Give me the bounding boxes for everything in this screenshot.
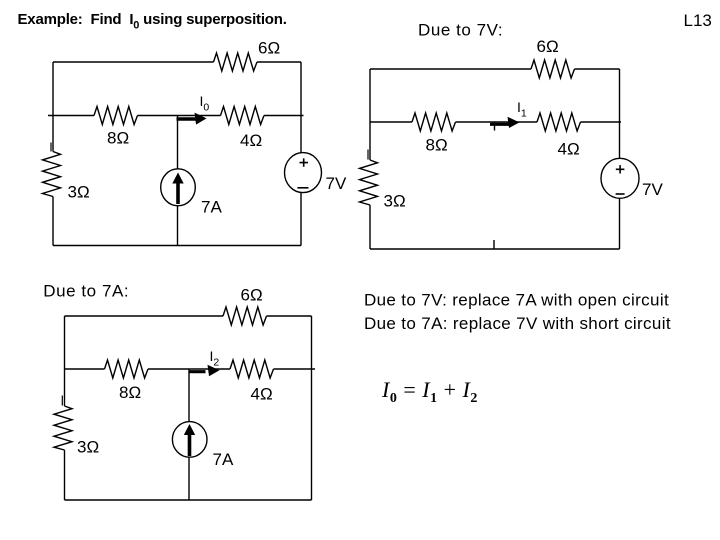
svg-text:8Ω: 8Ω: [107, 129, 129, 148]
svg-text:4Ω: 4Ω: [558, 140, 580, 159]
svg-text:3Ω: 3Ω: [77, 438, 99, 457]
wire: circuit 2 middle wire right segment: [581, 121, 622, 123]
svg-text:7V: 7V: [642, 180, 663, 199]
svg-text:8Ω: 8Ω: [426, 136, 448, 155]
resistor 6Ω (circuit 1): [214, 39, 281, 72]
svg-text:3Ω: 3Ω: [384, 192, 406, 211]
wire: circuit 2 bottom wire: [370, 248, 620, 250]
resistor 6Ω (circuit 2): [531, 37, 574, 78]
svg-text:I1: I1: [517, 99, 527, 120]
resistor 4Ω (circuit 1): [221, 107, 265, 151]
svg-text:Due to 7A: replace 7V with sho: Due to 7A: replace 7V with short circuit: [364, 314, 671, 333]
wire: circuit 3 top wire left segment: [65, 315, 224, 317]
open-circuit stub (bottom) where 7A source was removed: [493, 240, 495, 249]
wire: circuit 3 left rail upper segment: [64, 316, 66, 406]
svg-text:3Ω: 3Ω: [68, 183, 90, 202]
wire: circuit 1 right rail lower segment: [300, 193, 302, 246]
svg-text:6Ω: 6Ω: [537, 37, 559, 56]
wire: circuit 3 middle wire right segment: [274, 368, 316, 370]
wire: circuit 3 left rail lower segment: [64, 450, 66, 500]
resistor 8Ω (circuit 3): [105, 360, 149, 402]
wire: circuit 2 top wire left segment: [370, 68, 531, 70]
resistor 3Ω (circuit 3): [54, 406, 99, 457]
svg-text:I0 = I1 + I2: I0 = I1 + I2: [381, 377, 478, 406]
wire: circuit 2 top wire right segment: [575, 68, 620, 70]
svg-text:8Ω: 8Ω: [119, 383, 141, 402]
wire: circuit 2 left rail upper segment: [369, 69, 371, 160]
wire: circuit 2 left rail lower segment: [369, 205, 371, 249]
wire: circuit 2 middle wire center segment: [456, 121, 538, 123]
current arrow I0: [177, 113, 207, 125]
svg-text:Example: Find I0 using super: Example: Find I0 using superposition.: [18, 11, 287, 32]
wire: circuit 1 top wire left segment: [53, 61, 214, 63]
wire: circuit 1 right rail upper segment: [300, 62, 302, 153]
resistor 4Ω (circuit 2): [537, 113, 580, 159]
svg-text:7V: 7V: [326, 174, 347, 193]
voltage source 7V (circuit 1): [285, 153, 347, 193]
svg-text:I2: I2: [210, 348, 220, 369]
current source 7A (circuit 1): [161, 169, 223, 217]
wire: circuit 1 middle branch lower segment: [177, 206, 179, 246]
svg-text:6Ω: 6Ω: [241, 286, 263, 305]
wire: circuit 2 middle wire left segment: [370, 121, 412, 123]
wire: circuit 3 middle wire left segment: [65, 368, 105, 370]
svg-text:7A: 7A: [213, 450, 234, 469]
svg-text:Due to 7V:: Due to 7V:: [418, 21, 503, 40]
wire: circuit 1 middle wire left segment: [48, 115, 94, 117]
wire: circuit 1 left rail lower segment: [52, 197, 54, 246]
svg-text:7A: 7A: [201, 198, 222, 217]
voltage source 7V (circuit 2): [601, 158, 663, 199]
wire: circuit 3 middle branch lower segment: [188, 458, 190, 501]
resistor 3Ω (circuit 2): [360, 160, 406, 211]
wire: circuit 1 middle wire right segment: [264, 115, 304, 117]
open-circuit stub (top) where 7A source was removed: [494, 122, 496, 131]
svg-text:4Ω: 4Ω: [240, 131, 262, 150]
wire: circuit 2 right rail upper segment: [619, 69, 621, 158]
wire: circuit 3 middle branch upper segment: [188, 369, 190, 422]
svg-text:Due to 7A:: Due to 7A:: [43, 282, 129, 301]
svg-text:6Ω: 6Ω: [258, 39, 280, 58]
wire: circuit 1 left rail upper segment: [52, 62, 54, 152]
svg-text:L13: L13: [684, 11, 712, 30]
current arrow I2: [189, 365, 220, 377]
resistor 8Ω (circuit 2): [412, 113, 455, 155]
current arrow I1: [490, 117, 520, 128]
wire: circuit 3 middle wire center segment: [148, 368, 230, 370]
wire: circuit 1 top wire right segment: [257, 61, 301, 63]
svg-text:4Ω: 4Ω: [251, 385, 273, 404]
wire: circuit 3 right rail (short circuit replacing 7V): [311, 316, 313, 500]
svg-text:I0: I0: [200, 93, 210, 114]
wire: circuit 2 right rail lower segment: [619, 198, 621, 249]
wire: circuit 1 bottom wire: [53, 245, 301, 247]
wire: circuit 1 middle branch upper segment: [177, 116, 179, 170]
wire: circuit 3 bottom wire: [65, 499, 312, 501]
resistor 3Ω (circuit 1): [43, 152, 90, 202]
resistor 4Ω (circuit 3): [230, 360, 273, 404]
current source 7A (circuit 3): [172, 422, 234, 469]
resistor 8Ω (circuit 1): [94, 107, 138, 148]
resistor 6Ω (circuit 3): [223, 286, 267, 326]
wire: circuit 1 middle wire center segment: [138, 115, 221, 117]
wire: circuit 3 top wire right segment: [267, 315, 312, 317]
svg-text:Due to 7V: replace 7A with ope: Due to 7V: replace 7A with open circuit: [364, 291, 669, 310]
